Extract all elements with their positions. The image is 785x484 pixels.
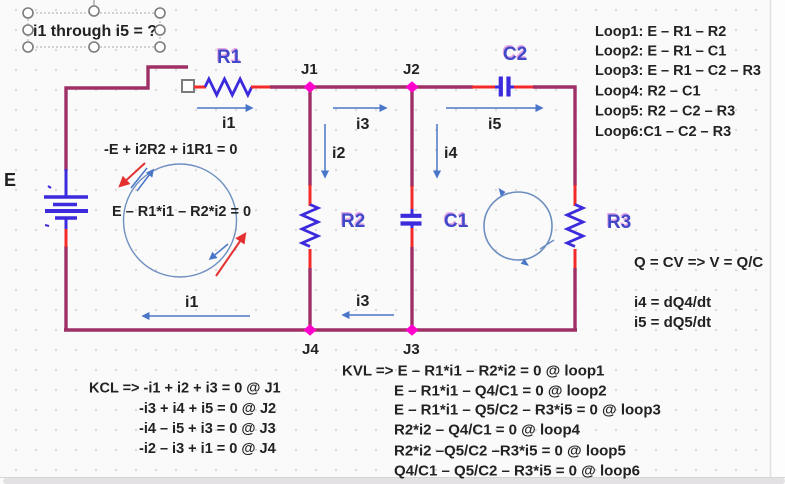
current arrow i4 xyxy=(436,124,438,177)
svg-text:Loop2: E – R1 – C1: Loop2: E – R1 – C1 xyxy=(595,44,726,60)
svg-text:J3: J3 xyxy=(403,341,420,358)
capacitor C2 xyxy=(495,77,515,97)
wire middle branch J1 down xyxy=(308,89,311,186)
svg-text:i1: i1 xyxy=(222,115,235,132)
wire red segment left of R1 xyxy=(194,86,206,89)
svg-text:Loop4: R2 – C1: Loop4: R2 – C1 xyxy=(595,84,701,100)
loop circle left (KVL loop 1) xyxy=(124,164,237,277)
svg-text:C1: C1 xyxy=(444,211,469,232)
svg-text:i1: i1 xyxy=(185,294,198,311)
loop list text xyxy=(595,24,761,140)
svg-text:Loop5: R2 – C2 – R3: Loop5: R2 – C2 – R3 xyxy=(595,104,735,120)
KVL equations xyxy=(342,363,661,480)
resistor R1 xyxy=(205,79,252,95)
svg-text:Loop3: E – R1 – C2 – R3: Loop3: E – R1 – C2 – R3 xyxy=(595,63,761,79)
svg-text:E – R1*i1 – R2*i2 = 0: E – R1*i1 – R2*i2 = 0 xyxy=(112,204,251,220)
svg-text:C2: C2 xyxy=(503,44,527,65)
wire red segment below battery xyxy=(65,229,68,247)
svg-text:-i3 + i4 + i5 = 0 @ J2: -i3 + i4 + i5 = 0 @ J2 xyxy=(139,401,276,417)
svg-text:i5: i5 xyxy=(488,116,501,133)
wire red segment below R3 xyxy=(574,249,577,269)
node J4 xyxy=(303,324,316,335)
wire red segment right of R1 xyxy=(251,86,271,89)
wire red segment right of C2 xyxy=(514,86,534,89)
capacitor C1 xyxy=(401,209,422,229)
svg-text:R2*i2 – Q4/C1 = 0 @ loop4: R2*i2 – Q4/C1 = 0 @ loop4 xyxy=(394,422,581,439)
svg-text:R3: R3 xyxy=(607,212,631,233)
svg-text:J4: J4 xyxy=(302,341,319,358)
svg-text:Loop1: E – R1 – R2: Loop1: E – R1 – R2 xyxy=(595,24,726,40)
loop circle right arrowhead bottom xyxy=(521,259,529,266)
wire red segment below C1 xyxy=(411,228,414,248)
current arrow i1 bottom xyxy=(143,315,250,317)
node J3 xyxy=(405,324,418,335)
svg-text:i4: i4 xyxy=(444,145,457,162)
battery E xyxy=(44,169,88,229)
svg-text:KVL => E – R1*i1 – R2*i2 = 0 @: KVL => E – R1*i1 – R2*i2 = 0 @ loop1 xyxy=(342,363,604,380)
blue clockwise arrow upper-left xyxy=(131,168,153,191)
svg-text:E: E xyxy=(4,170,16,190)
wire left rail lower (battery to bottom-left corner) xyxy=(64,246,67,330)
wire top rail R1 to C2 xyxy=(270,85,473,88)
wire middle branch to J4 xyxy=(308,268,311,330)
wire bottom rail xyxy=(64,328,577,332)
wire red segment above R3 xyxy=(574,185,577,206)
wire red segment below R2 xyxy=(309,249,312,269)
svg-text:i3: i3 xyxy=(356,116,369,133)
loop circle right arrowhead top xyxy=(499,188,506,197)
current arrow i3 bottom xyxy=(343,314,394,316)
svg-text:i2: i2 xyxy=(332,145,345,162)
svg-text:-i2 – i3 + i1 = 0 @ J4: -i2 – i3 + i1 = 0 @ J4 xyxy=(139,441,276,457)
node J1 xyxy=(303,81,316,92)
svg-text:-E + i2R2 + i1R1 = 0: -E + i2R2 + i1R1 = 0 xyxy=(104,142,237,158)
wire top-right corner to R3 xyxy=(533,87,575,186)
wire right rail lower xyxy=(573,268,576,330)
svg-text:-i4 – i5 + i3 = 0 @ J3: -i4 – i5 + i3 = 0 @ J3 xyxy=(139,421,276,437)
KCL equations xyxy=(89,381,281,458)
textbox "i1 through i5 = ?" with selection handles xyxy=(23,0,165,52)
svg-text:R2: R2 xyxy=(341,211,365,232)
svg-text:J1: J1 xyxy=(301,61,318,78)
wire red segment above R2 xyxy=(309,185,312,206)
svg-text:E – R1*i1 – Q5/C2 – R3*i5 = 0: E – R1*i1 – Q5/C2 – R3*i5 = 0 @ loop3 xyxy=(394,402,661,419)
svg-text:KCL => -i1 + i2 + i3 = 0 @ J1: KCL => -i1 + i2 + i3 = 0 @ J1 xyxy=(89,381,281,397)
svg-text:E – R1*i1 – Q4/C1 = 0 @ loop2: E – R1*i1 – Q4/C1 = 0 @ loop2 xyxy=(394,383,607,400)
svg-text:R1: R1 xyxy=(217,47,242,68)
node J2 xyxy=(405,81,418,92)
wire red segment left of C2 xyxy=(472,86,496,89)
svg-text:R2*i2 –Q5/C2 –R3*i5 = 0 @ loop: R2*i2 –Q5/C2 –R3*i5 = 0 @ loop5 xyxy=(394,443,626,460)
loop circle right tangent stroke xyxy=(540,240,554,249)
resistor R3 xyxy=(567,205,583,247)
svg-text:i1 through i5 = ?: i1 through i5 = ? xyxy=(33,23,157,40)
svg-text:i5 = dQ5/dt: i5 = dQ5/dt xyxy=(634,314,711,331)
current arrow i5 top xyxy=(446,107,542,109)
endpoint square handle xyxy=(182,80,194,92)
svg-text:i4 = dQ4/dt: i4 = dQ4/dt xyxy=(634,294,711,311)
blue clockwise arrow lower-right xyxy=(210,244,228,259)
red annotation arrow lower xyxy=(216,234,245,276)
loop circle right (C1-C2-R3 loop) xyxy=(484,192,552,260)
wire top-left step from R1 end to left rail xyxy=(66,67,188,171)
svg-text:Loop6:C1 – C2 – R3: Loop6:C1 – C2 – R3 xyxy=(595,124,731,140)
svg-text:Q4/C1 – Q5/C2 – R3*i5 = 0 @ lo: Q4/C1 – Q5/C2 – R3*i5 = 0 @ loop6 xyxy=(394,463,640,480)
current arrow i1 top xyxy=(197,107,252,109)
wire branch C1 to J3 xyxy=(410,247,413,330)
svg-text:J2: J2 xyxy=(403,61,420,78)
wire red segment above C1 xyxy=(411,186,414,211)
red annotation arrow upper xyxy=(120,163,145,186)
svg-text:Q = CV => V = Q/C: Q = CV => V = Q/C xyxy=(634,254,763,271)
resistor R2 xyxy=(302,205,318,247)
current arrow i3 top xyxy=(333,107,386,109)
wire branch J2 down xyxy=(410,89,413,187)
current arrow i2 xyxy=(324,124,326,177)
svg-text:i3: i3 xyxy=(356,293,369,310)
